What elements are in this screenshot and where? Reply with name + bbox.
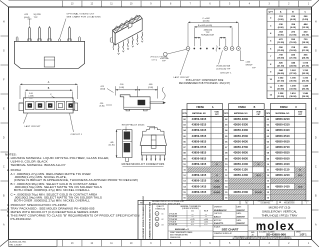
document number row — [248, 230, 312, 237]
svg-text:SEE CHART FOR LOCATIONS: SEE CHART FOR LOCATIONS — [67, 16, 102, 19]
svg-text:(18.00): (18.00) — [277, 58, 284, 60]
finish table A header — [187, 104, 223, 110]
svg-text:KGALETTO: KGALETTO — [214, 222, 224, 225]
view 1 left end tab — [16, 37, 18, 42]
svg-text:43650-1530: 43650-1530 — [233, 190, 248, 194]
svg-text:43650-0615: 43650-0615 — [192, 139, 207, 143]
mated view header pins — [141, 155, 165, 161]
svg-text:(15.00): (15.00) — [289, 42, 296, 44]
svg-text:NON-ACCUM: NON-ACCUM — [201, 34, 214, 37]
svg-text:APPR BY:: APPR BY: — [214, 219, 222, 222]
view 4 last circuit label — [24, 113, 42, 128]
quality symbols box — [155, 205, 168, 240]
dimension chart CKTS/A/B/C — [267, 9, 312, 99]
svg-text:(24.00): (24.00) — [289, 64, 296, 67]
svg-text:SD-43650-006: SD-43650-006 — [266, 232, 286, 236]
pcb layout pitch dimensions — [194, 29, 226, 38]
svg-text:(30.30): (30.30) — [302, 73, 309, 75]
svg-text:BOTH OVER .000050(1.27µ) MIN.: BOTH OVER .000050(1.27µ) MIN. NICKEL OVE… — [14, 199, 90, 203]
svg-text:43650-0210: 43650-0210 — [275, 117, 290, 121]
view 1 pin 3 — [48, 27, 52, 42]
svg-text:43650-1130: 43650-1130 — [233, 167, 248, 171]
view 2 isometric left end face — [113, 30, 116, 45]
svg-text:(12.00): (12.00) — [289, 35, 296, 37]
view 4 cavity 5 — [66, 101, 74, 109]
svg-text:(24.00): (24.00) — [277, 72, 284, 75]
svg-text:DIMENSIONS: DIMENSIONS — [170, 237, 181, 239]
svg-text:02: 02 — [162, 219, 164, 221]
svg-text:AJELLO: AJELLO — [214, 215, 221, 218]
svg-text:G: G — [3, 50, 5, 53]
svg-text:SHEET: SHEET — [296, 232, 301, 234]
svg-text:GROUP: GROUP — [246, 65, 254, 67]
view 4 dimension A — [20, 81, 78, 99]
svg-text:PS-45499-002.: PS-45499-002. — [11, 217, 32, 221]
svg-text:03: 03 — [216, 175, 218, 177]
view 2 isometric cavity openings — [114, 15, 140, 31]
mated view receptacle label — [122, 124, 155, 132]
svg-text:TYP: TYP — [34, 17, 39, 19]
svg-text:2 PLACES: 2 PLACES — [169, 218, 178, 221]
svg-text:H: H — [315, 21, 317, 24]
svg-text:(5.08): (5.08) — [119, 87, 124, 89]
svg-text:(12.30): (12.30) — [302, 27, 309, 29]
svg-text:1.310: 1.310 — [303, 78, 309, 80]
pcb layout hole pattern — [186, 47, 240, 51]
finish table A column headers — [182, 110, 223, 201]
svg-text:(3.00): (3.00) — [278, 19, 284, 21]
view 4 housing body — [19, 98, 78, 113]
svg-text:SCALE:: SCALE: — [214, 226, 221, 229]
svg-text:LAST CIRCUIT: LAST CIRCUIT — [174, 76, 191, 79]
mated view header lower body — [141, 146, 165, 155]
svg-text:43650-0315: 43650-0315 — [192, 123, 207, 127]
view 1 center polarization detail — [44, 57, 55, 67]
squiggle leader left of finish tables — [162, 87, 165, 100]
svg-text:03,04,05: 03,04,05 — [213, 185, 220, 188]
finish table B column headers — [224, 110, 265, 201]
svg-text:43650-0930: 43650-0930 — [233, 156, 248, 160]
notes text block — [5, 152, 139, 221]
mated view side silhouette — [123, 130, 132, 162]
view 1 right end tab — [79, 37, 81, 42]
pcb layout hole diameter balloon left — [160, 49, 186, 62]
bottom zone strip with column numbers — [9, 240, 312, 247]
proprietary legal strip — [213, 235, 312, 240]
svg-text:43650-0215: 43650-0215 — [192, 117, 207, 121]
svg-text:(±0.05): (±0.05) — [203, 21, 210, 23]
svg-text:(11.30): (11.30) — [109, 144, 115, 146]
view 4 dimension B — [25, 88, 72, 99]
svg-text:43650-0230: 43650-0230 — [233, 117, 248, 121]
right zone strip with row letters — [312, 21, 319, 227]
pcb layout right group note — [240, 50, 256, 69]
svg-text:(21.00): (21.00) — [289, 58, 296, 60]
svg-text:(39.30): (39.30) — [302, 96, 309, 98]
svg-text:(18.00): (18.00) — [289, 50, 296, 52]
svg-text:(9.30): (9.30) — [302, 19, 308, 21]
svg-text:43650-0630: 43650-0630 — [233, 139, 248, 143]
svg-text:±.002: ±.002 — [246, 62, 251, 64]
svg-text:(1.09±0.05) TYP: (1.09±0.05) TYP — [216, 68, 231, 70]
svg-text:FINISH: FINISH — [238, 107, 246, 109]
svg-text:43650-1230: 43650-1230 — [233, 173, 248, 177]
svg-text:RECOMMENDED PCB THICKNESS: .06: RECOMMENDED PCB THICKNESS: .062(1.57) — [179, 83, 230, 85]
svg-text:43650-1210: 43650-1210 — [275, 173, 290, 177]
svg-text:03,04,05: 03,04,05 — [213, 191, 220, 194]
svg-text:PCB LAYOUT: COMPONENT SIDE: PCB LAYOUT: COMPONENT SIDE — [186, 79, 224, 82]
pcb layout dimension C — [188, 18, 238, 23]
svg-text:1.428: 1.428 — [303, 84, 309, 87]
svg-text:CKT 5): CKT 5) — [151, 59, 157, 61]
view 5 left dimension lower — [100, 103, 113, 108]
svg-text:B ±.002 (±0.05): B ±.002 (±0.05) — [198, 25, 212, 27]
svg-text:QTY: QTY — [269, 12, 274, 14]
svg-text:4 PLACES: 4 PLACES — [169, 213, 178, 216]
svg-text:(30.00): (30.00) — [277, 88, 284, 90]
svg-text:(21.00): (21.00) — [277, 65, 284, 67]
svg-text:Ø.043±.002 DIA: Ø.043±.002 DIA — [216, 65, 230, 68]
svg-text:MATERIAL NO: MATERIAL NO — [192, 112, 206, 115]
svg-text:2008/07/07: 2008/07/07 — [237, 210, 246, 212]
title block outer box — [138, 200, 312, 239]
svg-text:(30.00): (30.00) — [289, 81, 296, 83]
top zone strip with column numbers — [9, 1, 312, 7]
svg-text:02,03: 02,03 — [298, 175, 302, 177]
svg-text:03: 03 — [162, 224, 164, 226]
dimension units row — [240, 199, 309, 204]
svg-text:±.002 DIA: ±.002 DIA — [160, 57, 169, 60]
view 4 cavity 1 — [26, 101, 34, 109]
svg-text:43650-0915: 43650-0915 — [192, 156, 207, 160]
pcb layout dimension B — [194, 25, 232, 28]
finish table C data rows — [265, 116, 306, 200]
finish table B data rows — [224, 116, 265, 200]
svg-text:43650-0310: 43650-0310 — [275, 123, 290, 127]
svg-text:(12.00): (12.00) — [277, 42, 284, 44]
view 5 terminal slot — [138, 100, 146, 105]
svg-text:43650-1215: 43650-1215 — [192, 173, 207, 177]
svg-text:(21.30): (21.30) — [302, 50, 309, 52]
svg-text:1.062: 1.062 — [278, 78, 284, 80]
view 1 optional voided circuit note — [60, 13, 101, 39]
svg-text:C: C — [315, 166, 317, 169]
svg-text:DATE:: DATE: — [237, 212, 242, 215]
svg-text:H: H — [3, 21, 5, 24]
view 1 voided circuit position notch — [59, 39, 61, 42]
svg-text:(33.00): (33.00) — [289, 88, 296, 90]
svg-text:43650-1410: 43650-1410 — [275, 184, 290, 188]
svg-text:(18.30): (18.30) — [302, 42, 309, 44]
svg-text:PROJECTION: PROJECTION — [284, 203, 295, 205]
svg-text:1.298: 1.298 — [278, 93, 284, 95]
svg-text:43650-0730: 43650-0730 — [233, 145, 248, 149]
svg-text:A-43650-006-7951: A-43650-006-7951 — [10, 240, 28, 243]
svg-text:C: C — [3, 166, 5, 169]
svg-text:MATED MICRO-FIT CONNECTORS: MATED MICRO-FIT CONNECTORS — [122, 163, 165, 166]
svg-text:LAST CIRCUIT: LAST CIRCUIT — [25, 125, 42, 128]
view 5 housing profile — [120, 95, 150, 110]
svg-text:1.180: 1.180 — [278, 85, 284, 87]
svg-text:43650-0415: 43650-0415 — [192, 128, 207, 132]
svg-text:03: 03 — [216, 164, 218, 166]
svg-text:02: 02 — [299, 169, 301, 171]
svg-text:ANGULAR ± 3°: ANGULAR ± 3° — [175, 228, 189, 231]
svg-text:1 PLACE: 1 PLACE — [169, 220, 177, 223]
svg-text:DRWN BY:: DRWN BY: — [214, 206, 223, 208]
svg-text:43650-0530: 43650-0530 — [233, 134, 248, 138]
svg-text:GENERAL TOLERANCES: GENERAL TOLERANCES — [180, 205, 201, 208]
svg-text:(2.03): (2.03) — [148, 87, 153, 89]
mated view height dimension — [109, 130, 122, 158]
pcb layout break squiggle — [216, 46, 217, 52]
svg-text:43650-0515: 43650-0515 — [192, 134, 207, 138]
svg-text:03,04: 03,04 — [215, 180, 219, 183]
svg-text:(6.00): (6.00) — [278, 27, 284, 29]
svg-text:(27.30): (27.30) — [302, 65, 309, 67]
svg-text:1.074: 1.074 — [303, 61, 309, 64]
svg-text:FINISH: FINISH — [196, 107, 204, 109]
svg-text:0 PLACES: 0 PLACES — [169, 223, 178, 226]
svg-text:1.062: 1.062 — [290, 70, 296, 72]
svg-text:2008/07/07: 2008/07/07 — [237, 216, 246, 218]
svg-text:SHROUD STYLE / TERM UPDATE: SHROUD STYLE / TERM UPDATE — [152, 202, 181, 205]
svg-text:(9.00): (9.00) — [278, 35, 284, 37]
svg-text:43650-0510: 43650-0510 — [275, 134, 290, 138]
svg-text:m: m — [156, 224, 158, 226]
svg-text:02: 02 — [258, 164, 260, 166]
view 1 pin 4 — [68, 27, 72, 42]
view 4 circuit 1 label — [70, 113, 83, 136]
svg-text:43650-0710: 43650-0710 — [275, 145, 290, 149]
svg-text:D: D — [3, 137, 5, 140]
svg-text:THRU HOLE / PF15 / TRAY: THRU HOLE / PF15 / TRAY — [262, 214, 298, 218]
svg-text:CIRCUIT 1: CIRCUIT 1 — [220, 73, 232, 75]
svg-text:(3.30): (3.30) — [100, 105, 105, 107]
view 5 top dimension lines — [116, 84, 158, 98]
svg-text:TERMINAL MATERIAL: BRASS ALLO: TERMINAL MATERIAL: BRASS ALLOY — [11, 163, 66, 167]
svg-text:43650-0830: 43650-0830 — [233, 151, 248, 155]
svg-text:MGAVRANOVIC: MGAVRANOVIC — [214, 209, 227, 212]
svg-text:43650-0430: 43650-0430 — [233, 128, 248, 132]
svg-text:43650-1110: 43650-1110 — [275, 167, 290, 171]
title block vertical document strips — [142, 196, 153, 239]
svg-text:1.298: 1.298 — [290, 85, 296, 87]
view 1 header body outline — [14, 41, 84, 68]
svg-text:FINISH: FINISH — [280, 107, 288, 109]
view 2 left mounting peg — [110, 37, 113, 50]
svg-text:MATERIAL NO: MATERIAL NO — [234, 112, 248, 115]
view 2 isometric front face — [115, 18, 142, 45]
svg-text:43650-1415: 43650-1415 — [192, 184, 207, 188]
svg-text:01: 01 — [162, 213, 164, 215]
title text — [253, 206, 306, 219]
view 4 cavity 3 — [46, 101, 54, 109]
drawn-checked-approved box — [213, 205, 248, 240]
mated view front mid body — [140, 135, 167, 146]
svg-text:A1: A1 — [252, 233, 254, 236]
view 2 note text — [150, 57, 168, 62]
svg-text:43650-0810: 43650-0810 — [275, 151, 290, 155]
svg-text:43650-0610: 43650-0610 — [275, 139, 290, 143]
svg-text:43650-1315: 43650-1315 — [192, 179, 207, 183]
view 2 latch tab — [128, 23, 132, 28]
finish table A data rows — [182, 116, 223, 200]
svg-text:(24.30): (24.30) — [302, 57, 309, 60]
svg-text:2008/07/07: 2008/07/07 — [237, 223, 246, 225]
svg-text:02,04: 02,04 — [298, 185, 302, 188]
molex logo — [256, 221, 295, 233]
svg-text:(27.00): (27.00) — [289, 73, 296, 75]
svg-text:DATE:: DATE: — [237, 219, 242, 222]
pcb layout last circuit label — [174, 50, 191, 79]
bottom-left document number box — [9, 240, 58, 247]
svg-text:OPTIONAL VOIDED CKT: OPTIONAL VOIDED CKT — [67, 13, 95, 16]
svg-text:DRAWING SERIES: A2: DRAWING SERIES: A2 — [214, 232, 232, 235]
left zone strip with row letters — [1, 21, 9, 227]
svg-text:RECEPTACLE 43645: RECEPTACLE 43645 — [122, 124, 145, 127]
pcb layout extension lines — [188, 23, 238, 46]
view 4 cavity 2 — [36, 101, 44, 109]
svg-text:02,03: 02,03 — [256, 175, 260, 177]
view 4 pitch text — [29, 93, 34, 100]
svg-text:(9.00): (9.00) — [290, 27, 296, 29]
svg-text:MATERIAL NO: MATERIAL NO — [276, 112, 290, 115]
svg-text:(36.00): (36.00) — [289, 96, 296, 98]
svg-text:43650-1030: 43650-1030 — [233, 162, 248, 166]
pcb layout caption — [179, 79, 230, 85]
svg-text:G: G — [315, 50, 317, 53]
view 5 left dimension upper — [100, 86, 113, 93]
svg-text:mm METRIC: mm METRIC — [260, 203, 271, 205]
svg-text:43650-1010: 43650-1010 — [275, 162, 290, 166]
pcb layout circuit 1 hole note — [216, 50, 232, 74]
svg-text:(27.00): (27.00) — [277, 81, 284, 83]
svg-text:1: 1 — [306, 203, 307, 205]
svg-text:(36.30): (36.30) — [302, 88, 309, 90]
view 1 pin 1 — [28, 27, 32, 42]
svg-text:1.416: 1.416 — [290, 92, 296, 95]
mated view front receptacle cap — [143, 128, 164, 135]
general tolerances box — [168, 205, 213, 240]
svg-text:43650-0715: 43650-0715 — [192, 145, 207, 149]
view 1 square pin dimension label — [24, 14, 41, 25]
svg-text:(6.00): (6.00) — [290, 19, 296, 21]
svg-text:43650-1015: 43650-1015 — [192, 162, 207, 166]
svg-text:CIRCUIT 1: CIRCUIT 1 — [71, 134, 83, 136]
view 2 isometric top face band — [113, 15, 143, 33]
svg-text:D: D — [315, 137, 317, 140]
svg-text:43650-0410: 43650-0410 — [275, 128, 290, 132]
title block revision row — [138, 201, 312, 205]
svg-text:SEE CHART: SEE CHART — [222, 227, 239, 231]
svg-text:(15.00): (15.00) — [277, 50, 284, 52]
view 4 chamfer C label — [50, 94, 55, 98]
svg-text:CKTS: CKTS — [224, 113, 228, 115]
finish table B header — [229, 104, 265, 110]
view 5 mounting feet — [126, 109, 147, 111]
mated view center latch slot — [151, 135, 156, 148]
svg-text:3 PLACES: 3 PLACES — [169, 215, 178, 218]
svg-text:03,04,05: 03,04,05 — [255, 191, 262, 194]
finish table C header — [270, 104, 306, 110]
svg-text:SYMBOL(S): SYMBOL(S) — [155, 208, 165, 210]
svg-text:(15.30): (15.30) — [302, 35, 309, 37]
view 2 solder pins — [118, 32, 143, 55]
svg-text:43650-0330: 43650-0330 — [233, 123, 248, 127]
svg-text:REL 1 2008/7: REL 1 2008/7 — [10, 244, 23, 246]
svg-text:43650-0910: 43650-0910 — [275, 156, 290, 160]
svg-text:43650-1515: 43650-1515 — [192, 190, 207, 194]
view 1 pin 2 — [38, 27, 42, 42]
svg-text:CHK’D BY:: CHK’D BY: — [214, 213, 223, 215]
svg-text:1.180: 1.180 — [290, 78, 296, 80]
svg-text:1.192: 1.192 — [303, 70, 309, 72]
svg-text:(0.64): (0.64) — [24, 17, 30, 19]
svg-text:CKTS: CKTS — [182, 113, 186, 115]
svg-text:1.546: 1.546 — [303, 92, 309, 95]
svg-text:CKTS: CKTS — [266, 113, 270, 115]
finish table C column headers — [265, 110, 306, 201]
view 5 solder pin — [150, 101, 166, 104]
svg-text:DATE:: DATE: — [237, 205, 242, 208]
svg-text:(33.00): (33.00) — [277, 96, 284, 98]
svg-text:43650-0815: 43650-0815 — [192, 151, 207, 155]
view 4 cavity 4 — [56, 101, 64, 109]
svg-text:(33.30): (33.30) — [302, 81, 309, 83]
svg-text:DOCUMENT STATUS P1 RELEASED 20: DOCUMENT STATUS P1 RELEASED 2008/07/07 — [142, 196, 145, 238]
svg-text:BOTH OVER .000050(1.27µ) MIN.: BOTH OVER .000050(1.27µ) MIN. NICKEL OVE… — [14, 188, 90, 192]
mated view caption — [122, 163, 165, 166]
svg-text:DRAWING SERIES SD-43650 REV F: DRAWING SERIES SD-43650 REV F 2008 — [149, 202, 152, 238]
svg-text:(0.64): (0.64) — [100, 89, 105, 91]
